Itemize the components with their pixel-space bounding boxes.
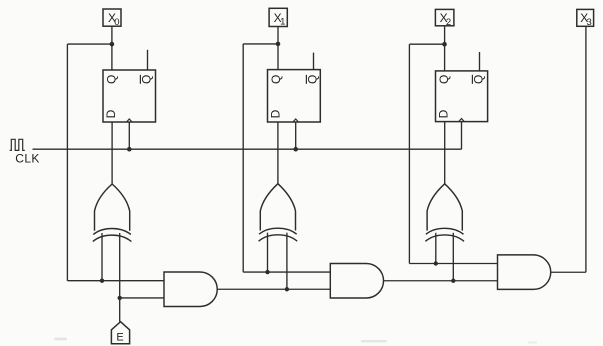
- wire AND G6 upper input: [409, 263, 497, 265]
- wire XOR G1 left input: [101, 233, 103, 281]
- junction node X1: [276, 42, 281, 47]
- wire X2 feedback horizontal: [409, 43, 444, 45]
- wire AND G6 output: [551, 271, 586, 273]
- wire U3 clock stub: [461, 122, 463, 150]
- svg-text:D: D: [269, 109, 283, 118]
- wire X1 feedback vertical: [242, 44, 244, 272]
- svg-text:Q: Q: [269, 75, 283, 84]
- wire U2 Q-bar stub: [313, 53, 315, 70]
- xor-gate G3 (stage 2): [425, 184, 464, 242]
- wire X0 feedback horizontal: [67, 43, 112, 45]
- junction U2 clock on CLK bus: [293, 147, 298, 152]
- svg-text:CLK: CLK: [15, 151, 40, 165]
- and-gate G6 (stage 2): [498, 255, 551, 290]
- wire E riser / XOR G1 right input: [119, 233, 121, 322]
- and-gate G5 (stage 1): [330, 264, 383, 299]
- node X2 (pin box): [435, 9, 454, 27]
- input pin E: [111, 322, 129, 344]
- flip-flop U2 (D flip-flop, stage 1): [268, 70, 321, 122]
- wire U3 Q-bar stub: [479, 52, 481, 71]
- wire X2 feedback vertical: [408, 44, 410, 263]
- junction node X2: [442, 42, 447, 47]
- svg-text:Q: Q: [437, 75, 451, 84]
- junction node X0: [110, 42, 115, 47]
- junction G2 right input tap: [285, 287, 289, 291]
- svg-text:1: 1: [280, 17, 285, 28]
- junction U1 clock on CLK bus: [127, 147, 132, 152]
- wire U2 clock stub: [295, 122, 297, 149]
- svg-text:D: D: [104, 109, 118, 118]
- svg-text:3: 3: [587, 17, 592, 28]
- node X0 (pin box): [103, 9, 121, 28]
- svg-text:0: 0: [114, 17, 119, 28]
- junction G1 left input tap: [100, 279, 104, 283]
- wire XOR G3 output to D of U3: [444, 122, 446, 185]
- xor-gate G2 (stage 1): [259, 184, 298, 242]
- junction G3 left input tap: [434, 261, 438, 265]
- flip-flop U3 (D flip-flop, stage 2): [436, 71, 488, 122]
- wire XOR G1 output to D of U1: [111, 122, 113, 185]
- wire AND G5 upper input: [243, 271, 330, 273]
- node X3 (pin box): [577, 9, 594, 27]
- wire AND G4 output: [217, 288, 330, 290]
- junction G3 right input tap: [451, 279, 455, 283]
- wire AND G4 upper input: [67, 280, 164, 282]
- flip-flop U1 (D flip-flop, stage 0): [103, 70, 156, 122]
- wire X3 riser: [585, 26, 587, 272]
- wire Q0 to X0: [111, 26, 113, 70]
- wire U1 clock stub: [128, 122, 130, 149]
- wire XOR G2 left input: [267, 233, 269, 272]
- wire X1 feedback horizontal: [243, 43, 278, 45]
- wire Q2 to X2: [444, 26, 446, 71]
- wire X0 feedback vertical: [66, 44, 68, 281]
- node X1 (pin box): [269, 8, 287, 27]
- wire Q1 to X1: [277, 27, 279, 70]
- wire XOR G3 left input: [435, 233, 437, 264]
- wire U1 Q-bar stub: [147, 50, 149, 70]
- xor-gate G1 (stage 0): [93, 184, 132, 242]
- clock source symbol: [10, 139, 25, 150]
- wire CLK bus: [33, 148, 462, 150]
- wire XOR G2 right input: [286, 233, 288, 290]
- svg-text:2: 2: [446, 17, 451, 28]
- wire XOR G2 output to D of U2: [277, 122, 279, 184]
- svg-text:Q: Q: [472, 75, 486, 84]
- svg-text:D: D: [437, 109, 451, 118]
- svg-text:Q: Q: [104, 75, 118, 84]
- wire AND G5 output: [384, 280, 498, 282]
- svg-text:E: E: [116, 331, 123, 343]
- wire AND G4 lower input: [120, 297, 164, 299]
- junction E tap: [118, 296, 122, 300]
- svg-text:Q: Q: [306, 75, 320, 84]
- wire XOR G3 right input: [452, 233, 454, 281]
- and-gate G4 (stage 0): [164, 272, 217, 307]
- junction G2 left input tap: [265, 270, 269, 274]
- svg-text:Q: Q: [140, 75, 154, 84]
